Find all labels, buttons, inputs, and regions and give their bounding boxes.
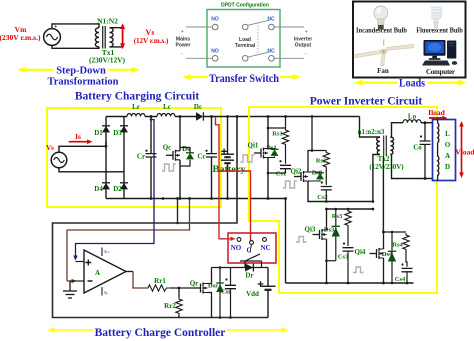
transformer Tx1 (95, 26, 113, 49)
svg-text:L: L (445, 130, 450, 138)
svg-text:+: + (305, 29, 308, 34)
svg-text:Vdd: Vdd (246, 290, 259, 298)
wire Rs1 branch (268, 127, 286, 129)
svg-text:V+: V+ (104, 250, 110, 255)
svg-text:D1: D1 (94, 129, 103, 137)
SECTION: transfer switch (175, 3, 312, 86)
svg-text:Terminal: Terminal (235, 43, 256, 49)
incandescent bulb image (374, 6, 388, 30)
label battery plus (221, 149, 227, 155)
wire inverter stub bottom (274, 57, 304, 59)
svg-text:Cs3: Cs3 (338, 254, 349, 261)
terminal NC top (269, 24, 275, 30)
terminal load bottom (242, 56, 248, 62)
terminal NC (263, 238, 267, 242)
mosfet Qi4 (370, 248, 384, 259)
gate drive Qi3 (296, 237, 307, 243)
wire Cr vertical (150, 117, 152, 199)
wire Qi2 source to Tx2 (308, 155, 380, 202)
svg-text:Battery Charging Circuit: Battery Charging Circuit (75, 91, 200, 103)
op-amp V- pin (101, 287, 103, 296)
op-amp A (84, 250, 126, 293)
wire Qi1 source (267, 158, 269, 199)
svg-text:Dr: Dr (245, 272, 253, 280)
relay box (228, 233, 276, 263)
wire Tx2 secondary bottom to load (390, 155, 433, 179)
svg-text:Dc: Dc (194, 103, 202, 111)
svg-text:Vs: Vs (146, 28, 155, 37)
capacitor Cs1 (280, 165, 291, 168)
wire Qr drain (208, 268, 212, 284)
battery Vdd (261, 268, 276, 318)
capacitor Cs3 (343, 248, 354, 251)
svg-text:Csr: Csr (221, 289, 231, 296)
arrow Iload (429, 116, 448, 120)
svg-text:Qi1: Qi1 (248, 142, 259, 150)
wire Ds connect (180, 148, 190, 167)
relay switch blade (245, 254, 260, 261)
wire Qi3 section top (327, 208, 373, 210)
diode D2 (120, 183, 128, 190)
diode D4 (102, 183, 110, 190)
svg-text:Step-Down: Step-Down (56, 66, 106, 77)
wire source bottom (59, 168, 124, 172)
label Vdd plus (258, 281, 264, 287)
caption arrow right (428, 80, 467, 86)
svg-text:NC: NC (260, 244, 270, 252)
diode Ds body (186, 153, 194, 160)
svg-text:Lo: Lo (408, 113, 417, 121)
wire Qc drain (179, 117, 181, 151)
svg-text:Cs4: Cs4 (395, 276, 406, 283)
svg-text:Qi4: Qi4 (355, 248, 366, 256)
svg-text:Cr: Cr (137, 153, 145, 161)
wire bottom loop (52, 45, 99, 48)
SECTION: step-down transformation (0, 17, 169, 88)
SECTION: power inverter circuit (241, 107, 474, 293)
SECTION: loads (353, 2, 467, 90)
wire mains stub bottom (186, 57, 212, 59)
wire Qr source (208, 293, 212, 318)
wire bottom rail (106, 198, 287, 200)
svg-text:NO: NO (211, 17, 219, 23)
wire inverter left frame (285, 199, 287, 284)
wire Qi2 drain (308, 151, 326, 173)
svg-text:Transformation: Transformation (48, 77, 119, 88)
svg-text:Ds1: Ds1 (266, 145, 276, 152)
wire top loop (52, 24, 99, 29)
gate drive Qi2 (283, 181, 297, 188)
caption arrow left (355, 80, 398, 86)
svg-text:A: A (445, 152, 450, 160)
switch enclosure (207, 10, 280, 68)
svg-text:(12V r.m.s.): (12V r.m.s.) (134, 37, 169, 45)
wire source top (59, 141, 106, 152)
svg-text:Rr2: Rr2 (164, 302, 176, 310)
svg-text:+: + (54, 24, 58, 30)
wire Rs1 to Cs1 (285, 146, 287, 164)
svg-text:NO: NO (231, 244, 242, 252)
svg-text:Power Inverter Circuit: Power Inverter Circuit (310, 96, 423, 108)
diode Dc (196, 112, 203, 120)
wire Qi3 source (326, 239, 328, 283)
svg-text:DPDT Configuration: DPDT Configuration (221, 3, 269, 9)
wire inverter bottom rail (286, 282, 414, 284)
gate drive Qc (162, 164, 176, 171)
caption arrow left (18, 67, 54, 73)
node battery rail (226, 115, 229, 118)
wire Dr rail (212, 267, 269, 269)
wire Rs2 to Cs2 (325, 169, 327, 185)
diode D3 (120, 126, 128, 133)
wire sense brown (67, 199, 190, 282)
wire Cs4 bottom (406, 272, 408, 283)
gate drive Qi4 (353, 267, 364, 273)
charging circuit yellow enclosure (47, 108, 221, 207)
mosfet Qr (194, 283, 208, 294)
svg-text:Rs4: Rs4 (392, 242, 403, 249)
wire Cc vertical (211, 117, 213, 199)
node dots bottom rail (150, 197, 153, 200)
node Cc rail (210, 115, 213, 118)
capacitor Co (424, 123, 426, 179)
fan image (355, 40, 414, 67)
arrow Vload (459, 121, 464, 178)
caption arrow right (280, 74, 301, 80)
node Qc drain dot (179, 115, 182, 118)
svg-text:Vs: Vs (46, 144, 54, 152)
svg-text:Battery: Battery (213, 164, 247, 174)
svg-text:Rr1: Rr1 (154, 277, 166, 285)
inverter yellow enclosure (249, 107, 437, 293)
svg-text:NC: NC (267, 48, 275, 54)
diode D1 (102, 126, 110, 133)
svg-text:NC: NC (267, 17, 275, 23)
svg-text:Qi2: Qi2 (291, 168, 302, 176)
caption arrow right (108, 67, 140, 73)
wire Lo to load (421, 122, 433, 124)
wire sense blue (76, 120, 155, 257)
wire Cs1 bottom (268, 169, 286, 173)
resistor Rr2 (176, 297, 182, 315)
svg-text:(230V r.m.s.): (230V r.m.s.) (0, 34, 41, 42)
svg-text:V-: V- (104, 291, 109, 296)
op-amp V+ pin (101, 248, 103, 257)
svg-text:Vm: Vm (15, 25, 27, 34)
wire inverter stub top (274, 26, 304, 28)
terminal NO (237, 238, 241, 242)
diode Dsr (219, 268, 221, 318)
mosfet Qc (166, 150, 180, 161)
svg-text:Dsr: Dsr (208, 283, 218, 290)
wire rail drop to Rs2 (311, 117, 313, 151)
svg-text:Transfer Switch: Transfer Switch (209, 73, 280, 85)
svg-text:D4: D4 (94, 185, 103, 193)
svg-text:Battery Charge Controller: Battery Charge Controller (95, 327, 226, 339)
wire Rr1 to Qr gate (170, 287, 194, 289)
gate drive Qi1 (241, 155, 255, 162)
arrow Vs secondary (red double arrow) (120, 23, 125, 49)
capacitor Cr (146, 154, 157, 157)
arrow Is (69, 139, 93, 144)
caption arrow left (48, 327, 94, 332)
wire sense black tee (177, 199, 179, 224)
svg-text:Ds: Ds (182, 145, 190, 153)
svg-text:Ds2: Ds2 (312, 170, 322, 177)
resistor Rs4 (403, 233, 409, 251)
diode Ds2 (316, 173, 324, 180)
diode Ds3 (335, 209, 337, 261)
svg-text:Fluorescent Bulb: Fluorescent Bulb (416, 27, 463, 35)
resistor Rs1 (282, 128, 288, 146)
svg-text:Computer: Computer (426, 68, 455, 76)
diode Ds4 (391, 232, 393, 283)
svg-text:Cs1: Cs1 (276, 171, 286, 178)
caption arrow left (183, 74, 209, 80)
wire Qi4 section top (383, 231, 406, 233)
node Qi1 drain rail (267, 115, 270, 118)
wire Qi4 drain (383, 232, 385, 249)
svg-text:Co: Co (413, 144, 422, 152)
svg-text:n1:n2:n3: n1:n2:n3 (358, 128, 385, 136)
svg-text:NO: NO (211, 48, 219, 54)
svg-text:D: D (445, 163, 450, 171)
wire Tx2 secondary top to Lo (390, 123, 403, 137)
svg-text:Qc: Qc (163, 144, 172, 152)
wire Cs3 bottom (347, 251, 349, 283)
load box (433, 120, 456, 181)
wire Qi1 drain (267, 117, 269, 149)
wire opamp plus stub (76, 261, 85, 263)
wire Ds3 anode stub (327, 260, 336, 262)
svg-text:Cc: Cc (197, 153, 205, 161)
svg-text:(12V/230V): (12V/230V) (369, 163, 404, 171)
wire Rs4 to Cs4 (406, 251, 407, 267)
svg-text:Rs2: Rs2 (316, 158, 326, 165)
link dashed (257, 22, 259, 54)
svg-text:Output: Output (295, 43, 312, 49)
svg-text:A: A (95, 269, 100, 277)
wire Qi4 source (383, 258, 385, 283)
capacitor Cc (206, 154, 217, 157)
inductor Lr (127, 114, 145, 117)
svg-text:Ds4: Ds4 (382, 251, 393, 258)
svg-text:O: O (445, 141, 451, 149)
wire bridge branch right (123, 117, 125, 199)
svg-text:Is: Is (75, 132, 81, 141)
svg-text:D2: D2 (113, 185, 122, 193)
diode Dr (245, 264, 253, 272)
inductor Lc (157, 114, 175, 117)
wire opamp output (126, 271, 133, 273)
wire rail to Tx2 (360, 117, 380, 138)
capacitor Cs2 (321, 187, 332, 190)
wire Tx2 tap down (382, 156, 384, 232)
terminal C (250, 241, 254, 245)
ground (63, 281, 77, 298)
wire opamp minus stub (70, 280, 84, 282)
svg-text:Rs3: Rs3 (332, 213, 343, 220)
wire mains stub top (186, 26, 212, 28)
fluorescent bulb image (432, 8, 441, 29)
mosfet Qi2 (294, 171, 308, 182)
svg-text:Iload: Iload (428, 108, 446, 117)
svg-text:Qi3: Qi3 (305, 226, 316, 234)
terminal NO bottom (212, 56, 218, 62)
wire Cs2 bottom (325, 190, 327, 202)
ac source Vm (44, 29, 61, 46)
caption arrow right (227, 327, 289, 332)
wire Qc gate stub (161, 155, 166, 164)
terminal NO top (212, 24, 218, 30)
resistor Rs3 (345, 209, 351, 227)
SECTION: battery charge controller (48, 115, 289, 339)
transformer Tx2 (377, 136, 394, 157)
resistor Rs2 (323, 151, 329, 169)
svg-text:Rs1: Rs1 (272, 131, 282, 138)
svg-text:Lc: Lc (163, 103, 171, 111)
node Cr junction (150, 115, 153, 118)
svg-text:Fan: Fan (377, 67, 389, 75)
SECTION: titles (75, 91, 423, 108)
wire sense black (53, 117, 269, 318)
wire relay red C feed (219, 171, 251, 241)
wire bridge branch left (105, 117, 107, 199)
battery symbol (221, 117, 234, 199)
computer image (422, 40, 457, 66)
svg-text:Power: Power (175, 43, 190, 49)
wire top rail (106, 116, 360, 118)
svg-text:Vload: Vload (455, 148, 474, 157)
svg-text:N1:N2: N1:N2 (97, 17, 118, 26)
load coil bottom (438, 143, 439, 181)
node Cr dot (145, 150, 147, 152)
blade top (248, 20, 269, 25)
capacitor Csr (230, 268, 232, 318)
ac source Vs (51, 152, 67, 168)
wire Qi3 drain (326, 209, 328, 230)
svg-text:+: + (181, 29, 184, 34)
svg-text:Incandescent Bulb: Incandescent Bulb (356, 27, 407, 35)
wire Qc source (179, 160, 181, 199)
svg-text:Loads: Loads (399, 78, 425, 90)
svg-text:(230V/12V): (230V/12V) (89, 56, 126, 65)
SECTION: battery charging circuit (46, 103, 359, 207)
terminal NC bottom (269, 56, 275, 62)
blade bottom (248, 52, 269, 57)
wire relay red NO feed (216, 117, 232, 239)
capacitor Cs4 (402, 268, 413, 271)
load coil top (438, 120, 439, 143)
svg-text:Ds3: Ds3 (324, 227, 335, 234)
wire secondary (110, 28, 123, 47)
mosfet Qi3 (313, 229, 327, 240)
mosfet Qi1 (254, 148, 268, 159)
svg-text:Lr: Lr (132, 103, 140, 111)
inductor Lo (403, 120, 421, 123)
diode Ds1 (271, 149, 279, 156)
svg-text:Qr: Qr (190, 280, 199, 288)
resistor Rr1 (147, 285, 171, 291)
node Cc dot (205, 150, 207, 152)
svg-text:D3: D3 (113, 129, 122, 137)
loads enclosure (353, 2, 466, 78)
wire Rs3 to Cs3 (347, 227, 349, 246)
terminal load top (242, 24, 248, 30)
